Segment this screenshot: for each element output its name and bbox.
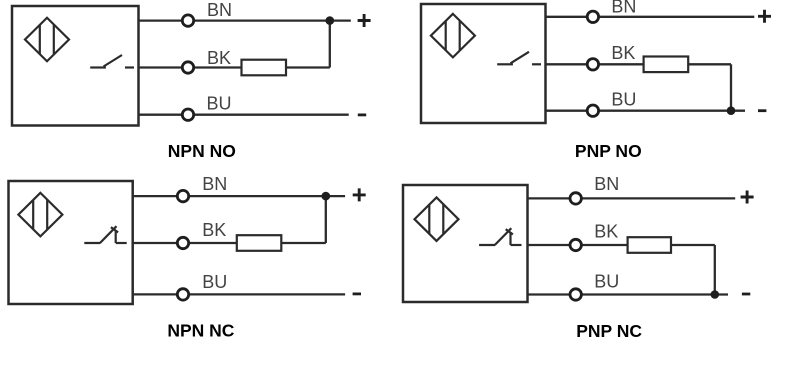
svg-text:BN: BN [202, 174, 227, 194]
svg-text:BU: BU [594, 271, 619, 291]
svg-text:PNP NO: PNP NO [575, 141, 642, 161]
svg-text:BN: BN [611, 0, 636, 16]
svg-text:BN: BN [594, 174, 619, 194]
svg-text:BU: BU [202, 272, 227, 292]
svg-text:NPN NO: NPN NO [168, 141, 236, 161]
svg-text:BN: BN [207, 0, 232, 20]
svg-text:NPN NC: NPN NC [167, 320, 234, 340]
svg-text:BU: BU [207, 94, 232, 114]
svg-text:BK: BK [202, 220, 226, 240]
svg-text:BU: BU [611, 89, 636, 109]
svg-text:BK: BK [207, 48, 231, 68]
svg-text:PNP NC: PNP NC [576, 321, 642, 341]
svg-text:BK: BK [611, 43, 635, 63]
svg-text:BK: BK [594, 221, 618, 241]
